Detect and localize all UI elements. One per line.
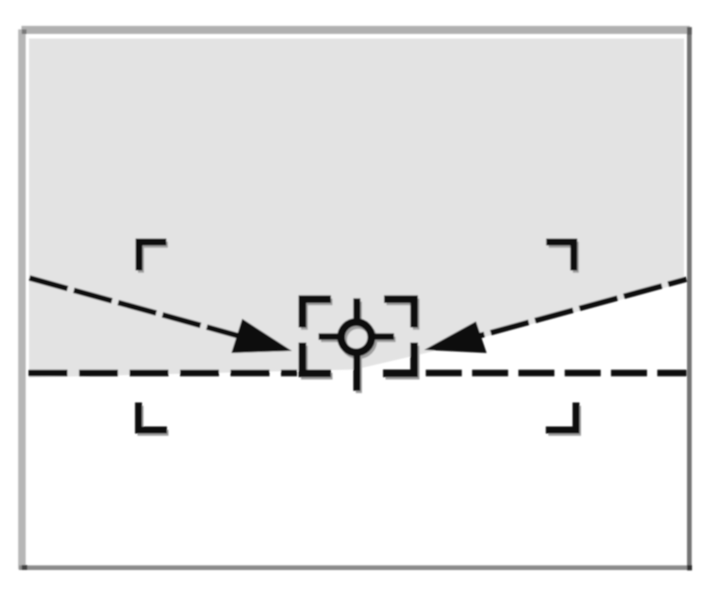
frame right border xyxy=(687,27,692,570)
gray sky region polygon xyxy=(29,39,684,378)
frame bottom border xyxy=(19,565,692,570)
crosshair left arm xyxy=(319,334,339,340)
frame top border xyxy=(22,26,691,34)
corner bracket top-left xyxy=(136,239,166,270)
AF target bracket bottom-left corner xyxy=(299,343,331,377)
corner bracket bottom-left xyxy=(136,403,167,433)
corner bracket bottom-right xyxy=(546,403,579,433)
left arrowhead xyxy=(232,320,291,353)
left diagonal dashed line xyxy=(30,278,241,336)
horizon dashed line left segment xyxy=(29,370,298,377)
AF target bracket bottom-right corner xyxy=(384,343,418,377)
frame corner bottom-left xyxy=(22,565,27,570)
crosshair right arm xyxy=(374,334,394,340)
AF target bracket top-right corner xyxy=(385,296,418,327)
right diagonal dashed line xyxy=(480,279,687,335)
crosshair bottom arm xyxy=(354,355,360,390)
frame corner bottom-right xyxy=(687,565,692,570)
frame left border xyxy=(18,29,26,569)
corner bracket top-right xyxy=(547,239,577,270)
right arrowhead xyxy=(426,322,486,353)
shadow copies of brackets and target xyxy=(138,242,582,436)
AF target bracket top-left corner xyxy=(299,296,331,327)
frame corner top-left xyxy=(22,29,27,34)
horizon dashed line right segment xyxy=(426,370,687,377)
focus point circle xyxy=(341,322,371,352)
crosshair top arm xyxy=(354,299,360,322)
frame corner top-right xyxy=(687,27,692,34)
